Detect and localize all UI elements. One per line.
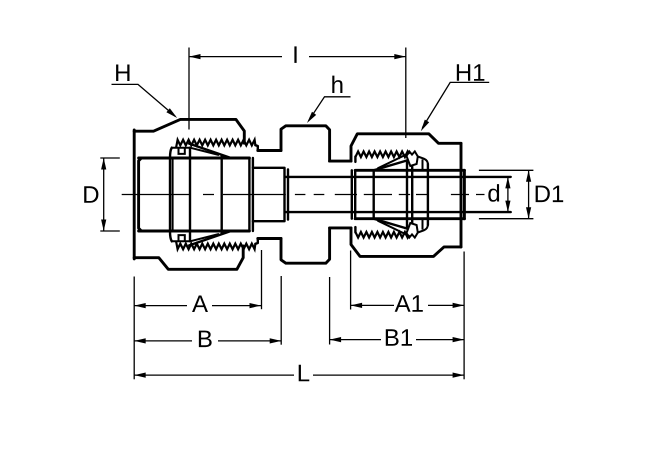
left tube end face <box>139 158 142 231</box>
dimension A <box>134 305 187 307</box>
extension lines bottom <box>133 277 135 380</box>
thread zigzag left top <box>176 140 255 148</box>
body neck lines <box>330 160 351 163</box>
nut shoulder left <box>170 148 172 242</box>
dimension B <box>134 340 192 342</box>
dimension D <box>100 157 120 159</box>
thread zigzag left bottom <box>176 241 255 249</box>
thread runout top <box>255 145 257 150</box>
centerline <box>122 194 485 196</box>
back ferrule right <box>407 151 418 166</box>
dimension A1 <box>351 304 394 306</box>
right tube end face <box>463 170 466 218</box>
bore lines d <box>285 176 511 178</box>
right nut H1 outline <box>351 134 461 161</box>
ferrule nose edge right <box>373 170 375 218</box>
front ferrule cone left <box>189 144 231 158</box>
body seat line left <box>220 155 222 233</box>
label h with leader <box>332 76 342 93</box>
thread zigzag right top <box>355 152 409 158</box>
body OD lines <box>258 149 281 152</box>
front ferrule cone right <box>374 160 408 170</box>
right tube OD top <box>355 169 464 172</box>
left tube OD bottom <box>139 230 250 233</box>
ferrule edge lines right <box>406 160 408 228</box>
body hex h outline <box>281 126 330 161</box>
right tube OD bottom <box>355 217 464 220</box>
dimension I <box>188 48 190 130</box>
left nut H outline <box>133 130 136 259</box>
right tube inner end <box>351 170 353 218</box>
dimension B1 <box>330 339 381 341</box>
label H1 with leader <box>457 64 470 81</box>
dimension d <box>507 177 509 212</box>
thread runout bottom <box>255 239 257 244</box>
dimension L <box>134 374 294 376</box>
dimension D1 <box>479 169 534 171</box>
left tube OD top <box>139 157 250 160</box>
left tube inner end <box>248 158 250 231</box>
nut shoulder right <box>418 157 428 165</box>
nut shoulder inner edge left <box>172 158 174 231</box>
counterbore <box>253 168 285 221</box>
back ferrule left <box>172 148 190 154</box>
thread zigzag right bottom <box>355 232 409 238</box>
label H with leader <box>116 64 129 81</box>
